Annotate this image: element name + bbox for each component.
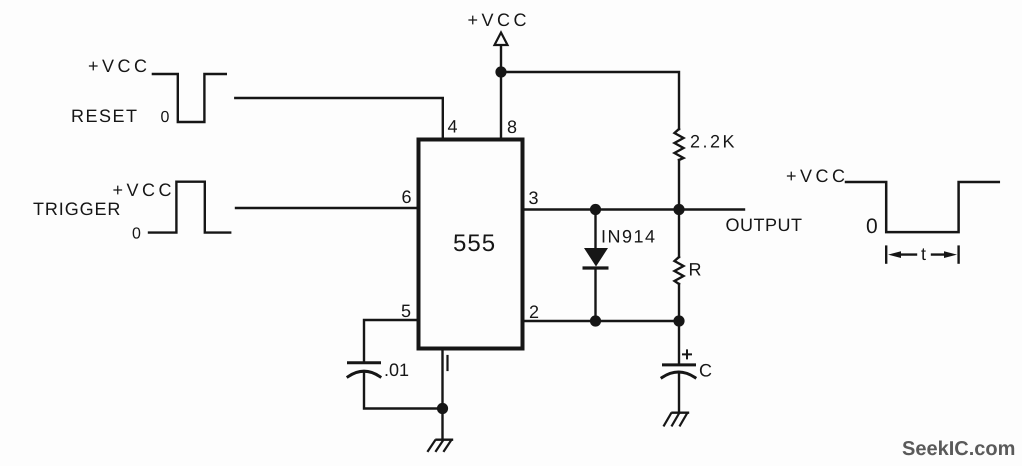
svg-text:0: 0 [161,109,170,126]
svg-text:OUTPUT: OUTPUT [726,215,803,235]
svg-text:t: t [921,244,926,264]
svg-text:SeekIC.com: SeekIC.com [902,438,1015,460]
svg-text:8: 8 [507,117,517,137]
svg-text:4: 4 [448,117,458,137]
svg-text:5: 5 [401,301,411,321]
svg-text:R: R [689,260,702,280]
svg-text:2.2K: 2.2K [690,132,737,152]
svg-text:TRIGGER: TRIGGER [33,199,121,219]
svg-text:2: 2 [529,302,539,322]
svg-text:555: 555 [453,230,496,257]
svg-text:6: 6 [402,187,412,207]
svg-text:+VCC: +VCC [113,180,176,200]
svg-text:RESET: RESET [71,106,139,126]
svg-text:C: C [699,361,712,381]
svg-text:0: 0 [132,226,141,243]
svg-text:+VCC: +VCC [88,56,151,76]
svg-text:3: 3 [529,188,539,208]
svg-text:.01: .01 [384,360,409,380]
svg-text:0: 0 [866,215,878,238]
svg-text:IN914: IN914 [601,227,657,247]
svg-text:+VCC: +VCC [468,10,531,30]
svg-text:+VCC: +VCC [786,166,849,186]
